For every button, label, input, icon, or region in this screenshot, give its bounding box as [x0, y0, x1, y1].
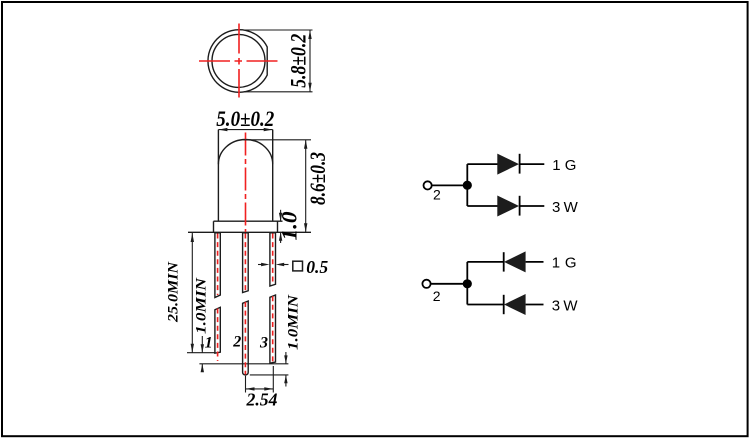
dimension 8.6±0.3: extension line at dome top	[244, 139, 312, 141]
svg-text:1: 1	[552, 255, 560, 272]
svg-text:3: 3	[259, 335, 268, 352]
svg-text:G: G	[565, 157, 577, 174]
lead 2 lower segment	[243, 301, 249, 375]
dimension 8.6±0.3: dimension line	[305, 140, 307, 233]
svg-text:1.0MIN: 1.0MIN	[194, 277, 210, 334]
circuit 2: wire from diode G to pin 1	[526, 261, 544, 263]
circuit 1: terminal node 2 (common)	[424, 181, 432, 189]
dimension 1.0MIN (right): upper arrow	[285, 352, 287, 364]
lead 3 lower segment	[270, 295, 276, 363]
svg-text:2: 2	[433, 288, 441, 304]
svg-text:5.8±0.2: 5.8±0.2	[286, 34, 311, 88]
circuit 2: junction dot	[463, 279, 472, 288]
circuit 2: diode 1 G cathode bar	[503, 252, 505, 271]
svg-text:3: 3	[552, 297, 560, 314]
svg-text:8.6±0.3: 8.6±0.3	[305, 152, 330, 205]
LED front view: flange top edge (with extension for 1.0 dim)	[214, 220, 283, 222]
circuit 1: diode 1 G (anode left) triangle	[497, 154, 519, 175]
dimension 1.0MIN (left): upper arrow	[201, 336, 203, 353]
svg-text:1: 1	[205, 335, 213, 352]
lead 3 centerline	[272, 234, 274, 364]
LED front view: body right side / extension	[272, 130, 274, 222]
svg-text:2: 2	[232, 334, 241, 351]
circuit 1: diode 3 W (anode left) triangle	[497, 196, 519, 217]
LED front view: epoxy dome	[218, 139, 272, 164]
circuit 1: wire from terminal to junction	[432, 184, 468, 186]
extension line at lead 2 bottom level	[250, 374, 289, 376]
svg-text:G: G	[565, 255, 577, 272]
dimension □0.5: right arrow	[279, 264, 289, 266]
dimension 2.54: arrowheads	[246, 387, 274, 390]
circuit 2: diode 3 W (anode right) triangle	[504, 294, 526, 315]
circuit 1: junction dot	[463, 181, 472, 190]
circuit 1: wire from diode G to pin 1	[520, 163, 545, 165]
circuit 2: wire to diode G cathode	[467, 261, 503, 263]
svg-text:1.0: 1.0	[277, 212, 302, 241]
centerline vertical (front view)	[245, 133, 247, 233]
dimension 5.8±0.2: arrowheads	[308, 30, 311, 92]
circuit 2: diode 3 W cathode bar	[503, 295, 505, 314]
svg-text:W: W	[564, 199, 579, 216]
LED top view: outer flange circle with flat	[208, 30, 267, 93]
lead 3 upper segment	[270, 233, 276, 286]
svg-text:W: W	[563, 297, 578, 314]
LED front view: flange sides	[214, 221, 278, 232]
centerline vertical (top view)	[238, 24, 240, 98]
centerline horizontal (top view)	[199, 60, 278, 62]
extension line at lead 3 bottom level	[199, 363, 288, 365]
LED front view: flange bottom edge (with extensions both sides)	[188, 231, 311, 233]
dimension 5.8±0.2: extension lines	[241, 30, 313, 92]
circuit 1: vertical branch wire	[466, 164, 468, 206]
dimension 5.0±0.2: dimension line	[218, 129, 272, 131]
LED top view: inner epoxy body circle	[212, 34, 265, 87]
LED front view: body left side / extension	[217, 130, 219, 222]
dimension 1.0MIN (left): lower arrow	[201, 364, 203, 371]
dimension 8.6±0.3: arrowheads	[304, 140, 307, 233]
dimension □0.5: left arrow	[258, 264, 266, 266]
circuit 1: wire to diode G anode	[467, 163, 497, 165]
circuit 2: wire to diode W cathode	[467, 304, 503, 306]
circuit 2: vertical branch wire	[466, 262, 468, 305]
svg-text:2: 2	[433, 187, 441, 203]
circuit 1: diode 3 W cathode bar	[519, 196, 521, 216]
dimension □0.5: square symbol	[293, 261, 303, 271]
dimension 5.8±0.2: dimension line	[309, 30, 311, 92]
svg-text:0.5: 0.5	[306, 257, 328, 277]
dimension 1.0 (flange height): upper arrow	[280, 210, 282, 221]
svg-text:3: 3	[552, 199, 560, 216]
dimension 2.54: dimension line	[246, 388, 274, 390]
svg-text:1: 1	[552, 157, 560, 174]
svg-text:25.0MIN: 25.0MIN	[166, 261, 182, 323]
circuit 2: terminal node 2 (common)	[422, 280, 430, 288]
dimension 25.0MIN: arrowheads	[191, 233, 194, 353]
dimension 1.0 (flange height): lower arrow	[280, 232, 282, 243]
lead 2 upper segment	[243, 233, 249, 293]
dimension 5.0±0.2: arrowheads	[218, 128, 272, 131]
extension line at lead 1 bottom	[187, 352, 216, 354]
circuit 2: diode 1 G (anode right) triangle	[504, 251, 526, 272]
svg-text:2.54: 2.54	[246, 390, 278, 410]
lead 1 lower segment	[215, 307, 220, 353]
circuit 1: diode 1 G cathode bar	[519, 154, 521, 174]
dimension 2.54: extension lines	[246, 366, 274, 393]
lead 1 centerline	[217, 234, 219, 362]
circuit 2: wire from terminal to junction	[431, 283, 468, 285]
svg-text:1.0MIN: 1.0MIN	[285, 294, 301, 350]
dimension 1.0MIN (right): lower arrow	[285, 375, 287, 387]
svg-text:5.0±0.2: 5.0±0.2	[216, 106, 274, 131]
circuit 1: wire from diode W to pin 3	[520, 205, 545, 207]
lead 1 upper segment	[215, 233, 220, 298]
lead 2 centerline	[244, 234, 246, 375]
dimension 25.0MIN: dimension line	[191, 233, 193, 353]
circuit 1: wire to diode W anode	[467, 205, 497, 207]
circuit 2: wire from diode W to pin 3	[526, 304, 544, 306]
